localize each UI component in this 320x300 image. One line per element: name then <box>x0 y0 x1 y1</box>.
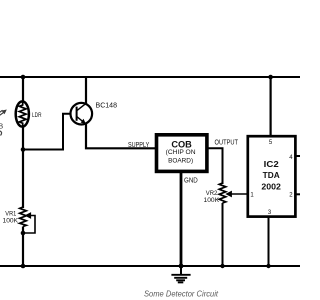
wire bottom ground rail <box>0 265 300 267</box>
node junction top rail / IC2 pin 5 <box>268 75 273 80</box>
wire VR2 bottom to rail <box>222 203 224 266</box>
svg-text:SUPPLY: SUPPLY <box>128 142 150 149</box>
IC2 TDA2002 box <box>248 136 296 216</box>
svg-text:GND: GND <box>184 175 198 184</box>
svg-text:100K: 100K <box>204 197 220 204</box>
node junction bottom rail / COB GND <box>179 264 184 269</box>
resistor LDR <box>16 101 29 127</box>
wire emitter of Q1 to COB supply <box>86 124 155 148</box>
svg-text:(CHIP ON: (CHIP ON <box>166 149 196 156</box>
potentiometer VR1 <box>20 207 35 233</box>
svg-text:OUTPUT: OUTPUT <box>215 139 239 146</box>
wire base of Q1 to LDR column <box>23 114 71 150</box>
IC U1 COB box <box>157 135 207 172</box>
node junction bottom rail / VR2 <box>220 264 224 268</box>
svg-text:VR1: VR1 <box>5 211 16 218</box>
wire COB output to VR2 top <box>209 148 223 184</box>
svg-text:TDA: TDA <box>263 171 280 180</box>
svg-text:100K: 100K <box>3 218 19 225</box>
wire IC2 pin 2 stub <box>295 193 300 195</box>
wire VR1 bottom to rail <box>22 227 24 267</box>
node junction LDR column / base tap <box>21 147 26 152</box>
svg-text:BOARD): BOARD) <box>168 158 193 165</box>
svg-text:2002: 2002 <box>261 183 281 192</box>
ground symbol <box>171 266 190 282</box>
transistor Q1 BC148 <box>71 103 93 125</box>
wire COB GND to bottom rail <box>180 173 183 267</box>
svg-text:VR2: VR2 <box>206 190 218 197</box>
wire IC2 pin 5 to top rail <box>270 77 272 136</box>
svg-text:Some Detector Circuit: Some Detector Circuit <box>144 289 219 298</box>
wire LDR bottom to VR1 <box>22 127 24 208</box>
svg-text:B: B <box>0 124 4 131</box>
wire collector of Q1 to top rail <box>85 77 87 104</box>
wire top supply rail <box>0 76 300 78</box>
wire LDR top lead <box>22 77 24 101</box>
svg-text:LDR: LDR <box>32 112 42 119</box>
wire IC2 pin 3 to bottom rail <box>268 217 270 267</box>
node junction bottom rail / VR1 <box>21 264 26 269</box>
svg-text:BC148: BC148 <box>96 101 118 110</box>
node junction bottom rail / IC2 pin 3 <box>266 264 270 268</box>
node junction VR1 wiper return <box>21 231 26 236</box>
svg-text:COB: COB <box>171 139 192 149</box>
svg-text:IC2: IC2 <box>264 160 280 169</box>
potentiometer VR2 <box>219 183 247 203</box>
light arrow fragment at left edge <box>0 110 7 117</box>
node junction top rail / LDR <box>21 75 26 80</box>
wire IC2 pin 4 stub <box>295 155 300 157</box>
curve fragment at left edge <box>0 131 2 136</box>
